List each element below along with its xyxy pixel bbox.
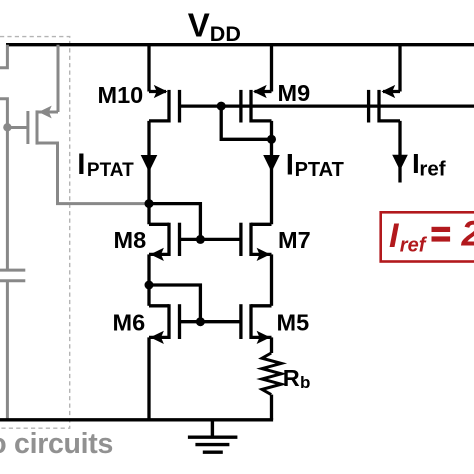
transistor M8 xyxy=(149,223,180,261)
svg-text:R: R xyxy=(283,365,300,391)
svg-text:I: I xyxy=(77,148,85,181)
transistor M7 xyxy=(241,223,272,261)
node M6 drain junction xyxy=(145,281,154,290)
transistor M9 xyxy=(241,45,272,123)
capacitor C1 (startup, gray) xyxy=(0,270,25,281)
svg-text:DD: DD xyxy=(210,22,241,46)
transistor Qs (startup PMOS, gray) xyxy=(7,45,58,145)
node M9 drain junction xyxy=(267,135,276,144)
wire left branch (M10 drain to M8 drain) xyxy=(149,121,169,224)
wire middle branch (M9 drain to M7 drain) xyxy=(251,121,272,224)
node M8 gate junction xyxy=(196,235,205,244)
node common gate junction xyxy=(217,102,226,111)
transistor M10 xyxy=(149,45,180,123)
wire startup gate net (left edge stub down to capacitor) xyxy=(0,99,7,270)
svg-text:ref: ref xyxy=(419,158,445,181)
wire M5 source to resistor xyxy=(270,337,273,353)
wire ground rail xyxy=(0,418,273,421)
svg-text:b: b xyxy=(300,373,310,392)
label Rb xyxy=(283,365,311,392)
wire M6-M5 gate line xyxy=(180,320,241,323)
label Iref xyxy=(412,148,446,181)
node startup gate dot xyxy=(3,123,11,131)
svg-text:M9: M9 xyxy=(278,80,311,106)
svg-text:M6: M6 xyxy=(113,309,146,335)
svg-text:M5: M5 xyxy=(277,309,310,335)
label VDD xyxy=(188,7,241,46)
resistor Rb xyxy=(262,353,281,395)
transistor M5 xyxy=(241,304,272,344)
svg-text:2: 2 xyxy=(461,214,474,254)
svg-text:M8: M8 xyxy=(114,227,147,253)
wire M8 source to M6 drain xyxy=(147,254,150,305)
wire resistor to ground rail xyxy=(270,395,273,420)
startup dashed box xyxy=(0,37,70,429)
svg-text:ref: ref xyxy=(400,235,428,257)
svg-text:I: I xyxy=(286,149,294,182)
svg-text:PTAT: PTAT xyxy=(87,160,134,181)
wire M7 source to M5 drain xyxy=(270,254,273,305)
transistor P3 (output PMOS, unlabeled) xyxy=(369,45,400,123)
svg-text:to circuits: to circuits xyxy=(0,428,113,460)
wire M8 gate-drain tie xyxy=(149,204,200,240)
arrow IPTAT middle xyxy=(263,155,280,172)
arrow IPTAT left xyxy=(141,155,158,172)
svg-text:PTAT: PTAT xyxy=(295,159,344,181)
wire capacitor to ground rail xyxy=(6,281,9,420)
node M8 drain junction (startup connection) xyxy=(145,199,154,208)
annotation red box Iref = 2 xyxy=(381,212,474,261)
wire common PMOS gate line xyxy=(180,104,474,107)
arrow Iref xyxy=(392,155,408,171)
ground symbol xyxy=(188,420,238,452)
transistor M6 xyxy=(149,304,180,344)
wire startup VDD stub to left edge xyxy=(0,45,7,68)
wire M6 source to ground rail xyxy=(147,337,150,419)
node M6 gate junction xyxy=(196,317,205,326)
wire startup drain to M8 drain node xyxy=(37,143,146,204)
label IPTAT left xyxy=(77,148,134,181)
wire M8-M7 gate line xyxy=(180,238,241,241)
svg-text:M7: M7 xyxy=(278,227,311,253)
svg-text:M10: M10 xyxy=(98,82,144,108)
wire M6 gate-drain tie xyxy=(149,285,200,322)
wire M9 gate-drain tie xyxy=(221,106,271,139)
svg-text:I: I xyxy=(389,217,400,255)
svg-text:V: V xyxy=(188,7,210,44)
label IPTAT middle xyxy=(286,149,344,182)
wire VDD rail xyxy=(6,43,474,46)
wire right branch (Iref output) xyxy=(379,121,400,183)
